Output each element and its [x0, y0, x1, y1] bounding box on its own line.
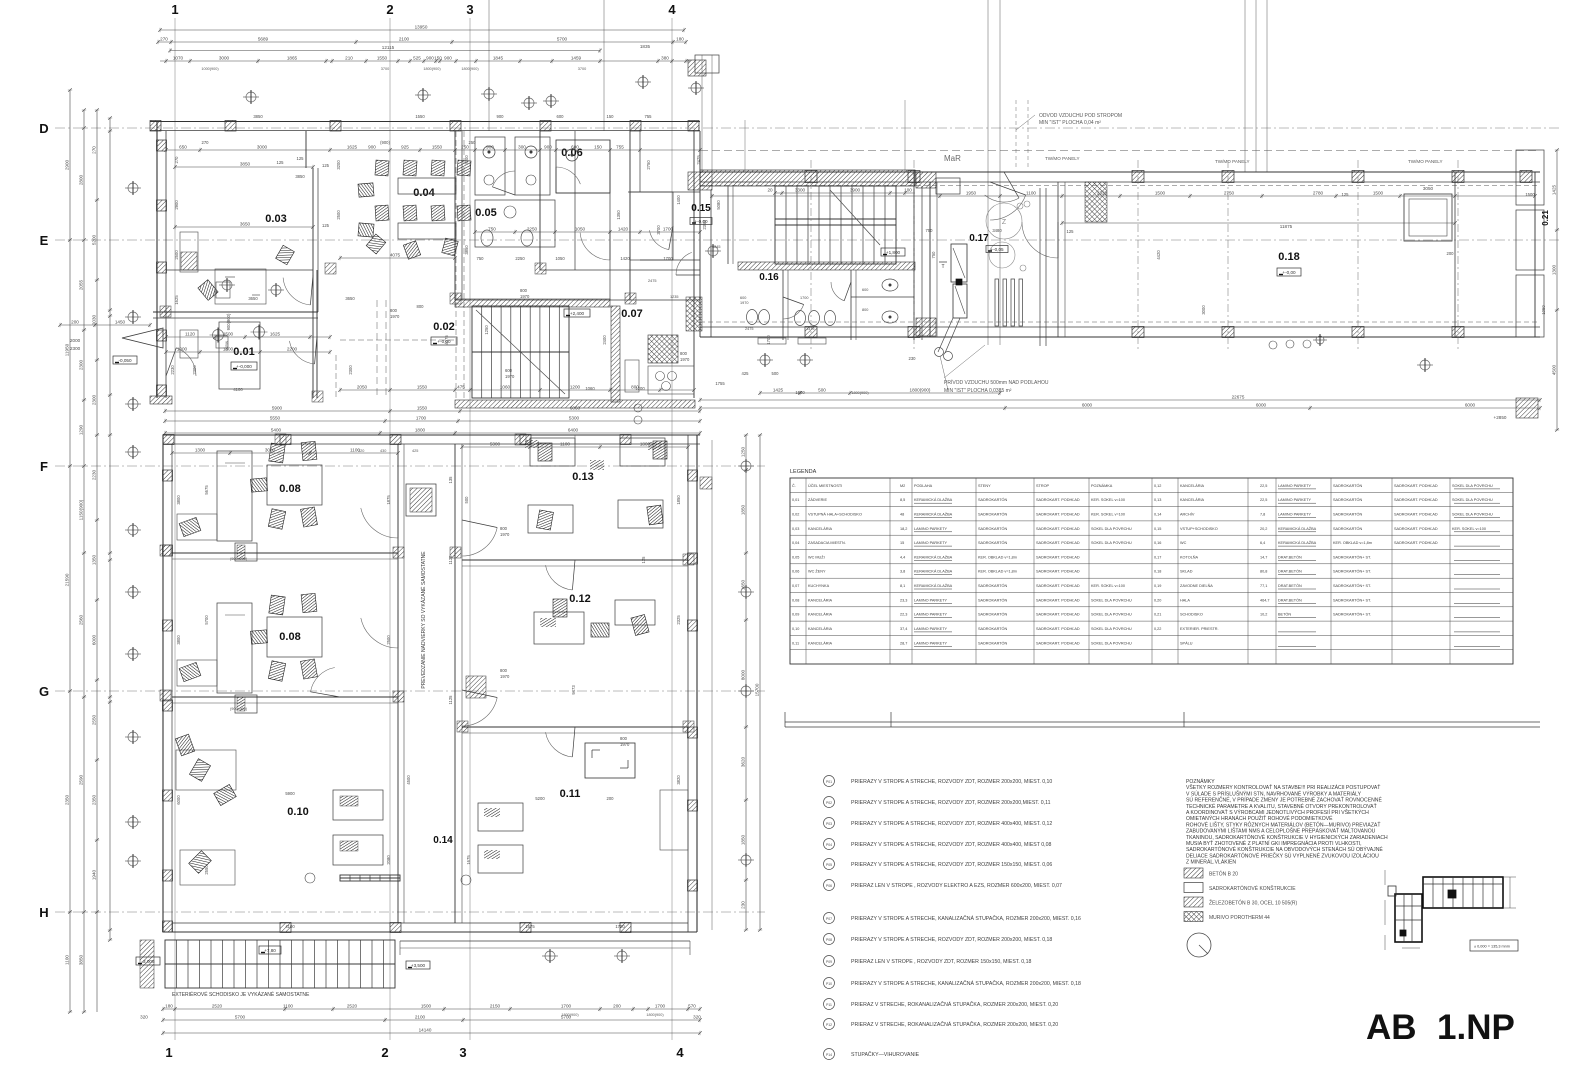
svg-text:1970: 1970 — [680, 357, 690, 362]
svg-text:1000(900): 1000(900) — [201, 67, 219, 71]
svg-text:4100: 4100 — [233, 387, 243, 392]
svg-text:± 0,000 = 135,3 mnm: ± 0,000 = 135,3 mnm — [1474, 945, 1510, 949]
svg-text:2550: 2550 — [92, 714, 97, 725]
svg-text:800: 800 — [680, 351, 688, 356]
svg-text:SADROKART. PODHĽAD: SADROKART. PODHĽAD — [1036, 527, 1080, 531]
svg-text:1650: 1650 — [741, 579, 746, 590]
svg-text:PRIERAZY V STROPE A STRECHE, R: PRIERAZY V STROPE A STRECHE, ROZVODY ZDT… — [851, 862, 1052, 868]
svg-text:15: 15 — [900, 541, 904, 545]
svg-text:DRAT.BETÓN: DRAT.BETÓN — [1278, 583, 1302, 588]
svg-text:ÚČEL MIESTNOSTI: ÚČEL MIESTNOSTI — [808, 483, 842, 488]
svg-text:LAMINO PARKETY: LAMINO PARKETY — [1278, 513, 1312, 517]
lower block inner walls — [172, 435, 688, 733]
svg-text:1.NP: 1.NP — [1437, 1008, 1515, 1047]
svg-text:P11: P11 — [826, 1003, 832, 1007]
room labels lower block — [279, 471, 593, 818]
svg-text:1700: 1700 — [655, 1004, 666, 1009]
svg-text:5550: 5550 — [270, 416, 281, 421]
svg-text:P01: P01 — [826, 780, 832, 784]
svg-text:180: 180 — [676, 37, 684, 42]
svg-text:0.15: 0.15 — [691, 203, 711, 214]
svg-text:22,5: 22,5 — [1260, 484, 1267, 488]
svg-text:12115: 12115 — [382, 45, 395, 50]
svg-text:PRIERAZY V STROPE A STRECHE, R: PRIERAZY V STROPE A STRECHE, ROZVODY ZDT… — [851, 821, 1052, 827]
svg-text:0.16: 0.16 — [759, 272, 779, 283]
svg-text:0,22: 0,22 — [1154, 627, 1161, 631]
svg-text:1500: 1500 — [421, 1004, 432, 1009]
svg-text:800: 800 — [500, 668, 508, 673]
svg-text:6000: 6000 — [176, 795, 181, 805]
svg-text:1970: 1970 — [520, 294, 530, 299]
svg-text:1970: 1970 — [500, 532, 510, 537]
svg-text:0,18: 0,18 — [1154, 570, 1161, 574]
legend table left rows — [792, 483, 1132, 646]
svg-text:2475: 2475 — [648, 279, 656, 283]
svg-text:SADROKART. PODHĽAD: SADROKART. PODHĽAD — [1394, 541, 1438, 545]
room 0.01 furniture — [166, 270, 386, 398]
svg-text:2500: 2500 — [386, 635, 391, 645]
svg-text:230: 230 — [909, 356, 917, 361]
svg-text:1845: 1845 — [493, 56, 504, 61]
svg-text:0.03: 0.03 — [265, 213, 286, 225]
svg-text:SADROKARTÓN: SADROKARTÓN — [978, 626, 1008, 631]
svg-text:1420: 1420 — [618, 227, 629, 232]
svg-text:PRIERAZ LEN V STROPE , ROZVODY: PRIERAZ LEN V STROPE , ROZVODY ELEKTRO A… — [851, 883, 1062, 889]
svg-text:P07: P07 — [826, 917, 832, 921]
svg-text:900: 900 — [486, 145, 494, 150]
svg-text:1150(900): 1150(900) — [79, 499, 84, 520]
corridor opening hatches — [406, 460, 712, 698]
svg-text:(900): (900) — [380, 140, 390, 145]
svg-text:P03: P03 — [826, 822, 832, 826]
svg-text:5700: 5700 — [561, 1015, 572, 1020]
svg-text:2055: 2055 — [79, 279, 84, 290]
room 0.10 furniture — [175, 734, 383, 885]
notes list P01-P14 — [824, 776, 1081, 1060]
svg-text:800: 800 — [390, 308, 398, 313]
rotated wall dims upper block — [170, 155, 701, 375]
wing bottom dims — [698, 388, 1542, 421]
svg-text:1850: 1850 — [676, 495, 681, 505]
svg-text:MURIVO POROTHERM 44: MURIVO POROTHERM 44 — [1209, 915, 1270, 921]
svg-text:2325: 2325 — [676, 615, 681, 625]
svg-text:3800: 3800 — [176, 635, 181, 645]
svg-text:135: 135 — [448, 476, 453, 484]
svg-text:4420: 4420 — [1156, 250, 1161, 260]
svg-text:2400: 2400 — [602, 335, 607, 345]
svg-text:0,20: 0,20 — [1154, 598, 1161, 602]
svg-text:750: 750 — [926, 228, 934, 233]
svg-text:+2,400: +2,400 — [570, 311, 585, 316]
svg-text:1755: 1755 — [715, 381, 725, 386]
svg-text:15700: 15700 — [755, 683, 760, 696]
svg-text:925: 925 — [401, 145, 409, 150]
svg-text:0.21: 0.21 — [1541, 210, 1550, 226]
svg-text:D: D — [39, 121, 48, 136]
svg-text:SADROKARTÓN: SADROKARTÓN — [978, 526, 1008, 531]
svg-text:270: 270 — [92, 146, 97, 154]
svg-text:F: F — [40, 459, 48, 474]
grid column lines 1-4 — [165, 2, 684, 1060]
lower block right dims — [738, 433, 762, 932]
svg-text:SADROKARTÓN: SADROKARTÓN — [1333, 497, 1363, 502]
svg-text:3050: 3050 — [1423, 186, 1434, 191]
svg-text:VSTUPNÁ HALA+SCHODISKO: VSTUPNÁ HALA+SCHODISKO — [808, 513, 862, 517]
svg-text:500: 500 — [464, 496, 469, 504]
right wing inner walls — [930, 172, 1455, 337]
svg-text:0.05: 0.05 — [475, 207, 496, 219]
svg-text:270: 270 — [202, 140, 210, 145]
svg-text:1000: 1000 — [177, 347, 188, 352]
svg-text:1970: 1970 — [390, 314, 400, 319]
section line below legend — [785, 712, 1540, 727]
svg-text:P05: P05 — [826, 863, 832, 867]
svg-text:2250: 2250 — [527, 227, 538, 232]
svg-text:0,16: 0,16 — [1154, 541, 1161, 545]
svg-text:4500: 4500 — [1552, 364, 1557, 375]
svg-text:LAMINO PARKETY: LAMINO PARKETY — [1278, 484, 1312, 488]
svg-text:PRIERAZY V STROPE A STRECHE, K: PRIERAZY V STROPE A STRECHE, KANALIZAČNÁ… — [851, 915, 1081, 922]
svg-text:SKLAD: SKLAD — [1180, 570, 1193, 574]
svg-text:-3,005: -3,005 — [141, 959, 154, 964]
svg-text:SADROKART. PODHĽAD: SADROKART. PODHĽAD — [1036, 570, 1080, 574]
svg-text:2500: 2500 — [174, 250, 179, 260]
svg-text:1350: 1350 — [616, 210, 621, 220]
svg-text:0,04: 0,04 — [792, 541, 799, 545]
svg-text:2100: 2100 — [399, 37, 410, 42]
svg-text:SADROKARTÓN+ ST.: SADROKARTÓN+ ST. — [1333, 554, 1371, 559]
svg-text:SÚ REFERENČNÉ, V PRÍPADE ZMENY: SÚ REFERENČNÉ, V PRÍPADE ZMENY JE POTREB… — [1186, 796, 1382, 804]
svg-text:22675: 22675 — [1232, 395, 1245, 400]
svg-text:SADROKARTÓN: SADROKARTÓN — [978, 583, 1008, 588]
svg-text:(900x900): (900x900) — [230, 557, 248, 561]
svg-text:SADROKART. PODHĽAD: SADROKART. PODHĽAD — [1036, 598, 1080, 602]
svg-text:125: 125 — [297, 156, 305, 161]
svg-text:0.07: 0.07 — [621, 308, 642, 320]
svg-text:2520: 2520 — [347, 1004, 358, 1009]
svg-text:125: 125 — [322, 223, 330, 228]
svg-text:SADROKARTÓN: SADROKARTÓN — [1333, 512, 1363, 517]
svg-text:8000: 8000 — [741, 669, 746, 680]
svg-text:PREVEDZANIE NADVIERKY SO VYKÁZ: PREVEDZANIE NADVIERKY SO VYKÁZANÉ SAMOST… — [420, 551, 427, 689]
svg-text:0,09: 0,09 — [792, 613, 799, 617]
svg-text:Z MINERÁL.VLÁKIEN: Z MINERÁL.VLÁKIEN — [1186, 859, 1236, 866]
svg-text:900: 900 — [544, 145, 552, 150]
svg-text:1060: 1060 — [500, 385, 511, 390]
svg-text:2750: 2750 — [1224, 191, 1235, 196]
key plan miniature — [1385, 870, 1518, 951]
svg-text:475: 475 — [457, 385, 465, 390]
svg-text:TW/MO PANELY: TW/MO PANELY — [1408, 159, 1443, 164]
svg-text:ROHOVÉ LIŠTY, STYKY RÔZNYCH MA: ROHOVÉ LIŠTY, STYKY RÔZNYCH MATERIÁLOV (… — [1186, 820, 1380, 828]
svg-text:210: 210 — [345, 56, 353, 61]
svg-text:KANCELÁRIA: KANCELÁRIA — [808, 527, 833, 531]
svg-text:SADROKART. PODHĽAD: SADROKART. PODHĽAD — [1394, 498, 1438, 502]
svg-text:+2850: +2850 — [1494, 415, 1507, 420]
svg-text:3650: 3650 — [240, 222, 251, 227]
svg-text:4: 4 — [668, 2, 676, 17]
svg-text:0,01: 0,01 — [792, 498, 799, 502]
svg-text:LAMINO PARKETY: LAMINO PARKETY — [914, 641, 948, 645]
svg-text:PRIERAZ V STRECHE, ROKANALIZAČ: PRIERAZ V STRECHE, ROKANALIZAČNÁ STUPAČK… — [851, 1001, 1058, 1008]
svg-text:23,3: 23,3 — [900, 598, 907, 602]
svg-text:900: 900 — [444, 56, 452, 61]
svg-text:1: 1 — [171, 2, 178, 17]
svg-text:SADROKARTÓN: SADROKARTÓN — [1333, 526, 1363, 531]
junction walls 0.15 — [640, 226, 720, 331]
svg-text:750: 750 — [488, 227, 496, 232]
svg-text:1800(900): 1800(900) — [646, 1013, 664, 1017]
svg-text:1235: 1235 — [670, 295, 678, 299]
wing right end — [1516, 148, 1559, 432]
svg-text:900: 900 — [368, 145, 376, 150]
svg-text:1800(900): 1800(900) — [461, 67, 479, 71]
upper block outer walls — [150, 121, 700, 399]
svg-text:1875: 1875 — [386, 495, 391, 505]
svg-text:0,15: 0,15 — [1154, 527, 1161, 531]
svg-text:LAMINO PARKETY: LAMINO PARKETY — [1278, 498, 1312, 502]
wing axis dashes — [700, 100, 1540, 350]
svg-text:4075: 4075 — [390, 253, 401, 258]
svg-text:0,12: 0,12 — [1154, 484, 1161, 488]
svg-text:SOKEL DLA POVRCHU: SOKEL DLA POVRCHU — [1091, 613, 1132, 617]
svg-text:PRIERAZ V STRECHE, ROKANALIZAČ: PRIERAZ V STRECHE, ROKANALIZAČNÁ STUPAČK… — [851, 1021, 1058, 1028]
svg-text:3700: 3700 — [578, 67, 586, 71]
svg-text:SADROKARTÓN+ ST.: SADROKARTÓN+ ST. — [1333, 583, 1371, 588]
svg-text:6,4: 6,4 — [1260, 541, 1265, 545]
svg-text:ZABUDOVANÝMI LIŠTAMI NMS A CEL: ZABUDOVANÝMI LIŠTAMI NMS A CELOPLOŠNE PR… — [1186, 827, 1376, 835]
svg-text:80,8: 80,8 — [1260, 570, 1267, 574]
upper block inner walls — [153, 131, 700, 398]
svg-text:P06: P06 — [826, 884, 832, 888]
svg-text:2300: 2300 — [348, 365, 353, 375]
svg-text:SOKEL DLA POVRCHU: SOKEL DLA POVRCHU — [1091, 527, 1132, 531]
svg-text:3300: 3300 — [795, 188, 806, 193]
svg-text:1625: 1625 — [270, 332, 281, 337]
svg-text:KER. SOKEL v=100: KER. SOKEL v=100 — [1091, 513, 1125, 517]
svg-text:570: 570 — [688, 1004, 696, 1009]
svg-text:1800: 1800 — [223, 347, 234, 352]
svg-text:0.02: 0.02 — [433, 321, 454, 333]
svg-text:5700: 5700 — [557, 37, 568, 42]
svg-text:525: 525 — [413, 56, 421, 61]
svg-text:3850: 3850 — [295, 174, 305, 179]
svg-text:1550: 1550 — [415, 114, 425, 119]
svg-text:TKANINOU, SADROKARTÓNOVÉ KONŠT: TKANINOU, SADROKARTÓNOVÉ KONŠTRUKCIE V H… — [1186, 834, 1388, 841]
svg-text:KERAMICKÁ DLAŽBA: KERAMICKÁ DLAŽBA — [1278, 526, 1317, 531]
hatched strip below upper block — [150, 396, 695, 408]
svg-text:+-0,000: +-0,000 — [236, 364, 252, 369]
svg-text:KOTOLŇA: KOTOLŇA — [1180, 554, 1199, 559]
interior dims lower block — [170, 442, 690, 930]
svg-text:755: 755 — [616, 145, 624, 150]
svg-text:AB: AB — [1366, 1008, 1417, 1047]
svg-text:PRIERAZY V STROPE A STRECHE, R: PRIERAZY V STROPE A STRECHE, ROZVODY ZDT… — [851, 937, 1052, 943]
svg-text:4100: 4100 — [285, 924, 295, 929]
drawing title AB 1.NP — [1366, 1008, 1515, 1047]
svg-text:1300: 1300 — [195, 448, 206, 453]
svg-text:1100: 1100 — [1026, 191, 1036, 196]
wing staircase — [700, 170, 960, 345]
svg-text:0.08: 0.08 — [279, 631, 300, 643]
svg-text:2300: 2300 — [192, 365, 197, 375]
svg-text:SADROKART. PODHĽAD: SADROKART. PODHĽAD — [1036, 613, 1080, 617]
svg-text:KANCELÁRIA: KANCELÁRIA — [808, 613, 833, 617]
svg-text:1800(900): 1800(900) — [910, 388, 931, 393]
svg-text:425: 425 — [412, 449, 418, 453]
svg-text:750: 750 — [477, 256, 485, 261]
room 0.04 tables and chairs — [358, 160, 471, 259]
svg-text:600: 600 — [571, 145, 579, 150]
svg-text:PRIERAZY V STROPE A STRECHE, R: PRIERAZY V STROPE A STRECHE, ROZVODY ZDT… — [851, 842, 1051, 848]
legend table right rows — [1154, 483, 1500, 646]
bottom dimension chains — [140, 1004, 702, 1036]
svg-text:1550: 1550 — [377, 56, 388, 61]
svg-text:STENY: STENY — [978, 484, 991, 488]
svg-text:VŠETKY ROZMERY KONTROLOVAŤ NA: VŠETKY ROZMERY KONTROLOVAŤ NA STAVBE!!! … — [1186, 783, 1380, 791]
lower block outer walls — [163, 435, 701, 933]
svg-text:SADROKART. PODHĽAD: SADROKART. PODHĽAD — [1036, 541, 1080, 545]
svg-text:1865: 1865 — [287, 56, 298, 61]
svg-text:0,10: 0,10 — [792, 627, 799, 631]
svg-text:2100: 2100 — [415, 1015, 426, 1020]
svg-text:1550: 1550 — [417, 385, 428, 390]
svg-text:37,4: 37,4 — [900, 627, 907, 631]
room 0.08 bottom furniture — [177, 593, 322, 713]
svg-text:VSTUP+SCHODISKO: VSTUP+SCHODISKO — [1180, 527, 1218, 531]
svg-text:0.11: 0.11 — [560, 788, 581, 800]
svg-text:5900: 5900 — [285, 791, 295, 796]
svg-text:1050: 1050 — [1541, 305, 1546, 315]
door arcs lower block — [311, 500, 576, 757]
svg-text:ARCHÍV: ARCHÍV — [1180, 513, 1195, 517]
svg-text:1420: 1420 — [620, 256, 630, 261]
svg-text:6000: 6000 — [1082, 403, 1093, 408]
svg-text:600: 600 — [740, 296, 746, 300]
svg-text:6000: 6000 — [1256, 403, 1267, 408]
svg-text:2250: 2250 — [515, 256, 525, 261]
svg-text:Č.: Č. — [792, 483, 796, 488]
svg-text:800: 800 — [520, 288, 528, 293]
svg-text:750: 750 — [931, 251, 936, 259]
svg-text:1700: 1700 — [800, 296, 808, 300]
svg-text:1450: 1450 — [115, 320, 126, 325]
hatch legend — [1184, 868, 1298, 922]
svg-text:5300: 5300 — [569, 416, 580, 421]
central staircase — [455, 299, 610, 398]
svg-text:3820: 3820 — [676, 775, 681, 785]
svg-text:3700: 3700 — [656, 225, 661, 235]
room 0.11 furniture — [585, 743, 688, 850]
exterior staircase — [136, 875, 430, 998]
svg-text:125: 125 — [277, 160, 285, 165]
svg-text:6400: 6400 — [568, 428, 579, 433]
svg-text:0.18: 0.18 — [1278, 251, 1299, 263]
svg-text:0,07: 0,07 — [792, 584, 799, 588]
svg-text:SOKEL DLA POVRCHU: SOKEL DLA POVRCHU — [1452, 484, 1493, 488]
top axis circles — [243, 75, 704, 110]
svg-text:3000: 3000 — [219, 56, 230, 61]
svg-text:P02: P02 — [826, 801, 832, 805]
svg-text:3480: 3480 — [992, 228, 1002, 233]
svg-text:2230: 2230 — [170, 365, 175, 375]
svg-text:SADROKART. PODHĽAD: SADROKART. PODHĽAD — [1036, 513, 1080, 517]
svg-text:125: 125 — [1067, 229, 1075, 234]
svg-text:800: 800 — [620, 736, 628, 741]
svg-text:SADROKART. PODHĽAD: SADROKART. PODHĽAD — [1036, 641, 1080, 645]
svg-text:SADROKARTÓN+ ST.: SADROKARTÓN+ ST. — [1333, 569, 1371, 574]
svg-text:0,08: 0,08 — [792, 598, 799, 602]
svg-text:P10: P10 — [826, 982, 832, 986]
svg-text:Z: Z — [1002, 219, 1007, 226]
svg-text:2350: 2350 — [65, 794, 70, 805]
svg-text:1200: 1200 — [570, 385, 581, 390]
svg-text:1675: 1675 — [466, 855, 471, 865]
svg-text:2200: 2200 — [287, 347, 298, 352]
svg-text:1500: 1500 — [223, 332, 234, 337]
svg-text:KERAMICKÁ DLAŽBA: KERAMICKÁ DLAŽBA — [914, 497, 953, 502]
svg-text:300: 300 — [518, 145, 526, 150]
svg-text:KERAMICKÁ DLAŽBA: KERAMICKÁ DLAŽBA — [1278, 540, 1317, 545]
svg-text:2590: 2590 — [79, 774, 84, 785]
room 0.16 — [740, 270, 914, 344]
remarks paragraph — [1186, 778, 1388, 866]
svg-text:3000: 3000 — [257, 145, 268, 150]
svg-text:1100: 1100 — [560, 442, 570, 447]
svg-text:0,17: 0,17 — [1154, 555, 1161, 559]
svg-text:STROP: STROP — [1036, 484, 1050, 488]
svg-text:SADROKART. PODHĽAD: SADROKART. PODHĽAD — [1036, 555, 1080, 559]
svg-text:BETÓN B 20: BETÓN B 20 — [1209, 871, 1238, 878]
svg-text:1800(900): 1800(900) — [423, 67, 441, 71]
svg-text:0.10: 0.10 — [287, 806, 308, 818]
svg-text:1425: 1425 — [1552, 184, 1557, 195]
svg-text:4075: 4075 — [444, 335, 449, 345]
svg-text:1290: 1290 — [79, 424, 84, 435]
svg-text:2080: 2080 — [386, 855, 391, 865]
svg-text:KANCELÁRIA: KANCELÁRIA — [1180, 484, 1205, 488]
svg-text:3: 3 — [459, 1045, 466, 1060]
svg-text:250: 250 — [469, 140, 477, 145]
svg-text:KUCHYNKA: KUCHYNKA — [808, 584, 830, 588]
room labels upper block — [231, 147, 712, 370]
svg-text:18,2: 18,2 — [900, 527, 907, 531]
svg-text:22,3: 22,3 — [900, 613, 907, 617]
svg-text:14,7: 14,7 — [1260, 555, 1267, 559]
svg-text:3850: 3850 — [253, 114, 263, 119]
svg-text:125: 125 — [641, 556, 646, 564]
svg-text:5689: 5689 — [258, 37, 269, 42]
svg-text:1459: 1459 — [571, 56, 582, 61]
svg-text:LAMINO PARKETY: LAMINO PARKETY — [914, 527, 948, 531]
svg-text:200: 200 — [71, 320, 79, 325]
north symbol — [1187, 933, 1211, 957]
svg-text:1950: 1950 — [966, 191, 977, 196]
svg-text:3620: 3620 — [741, 756, 746, 767]
svg-text:3000: 3000 — [1201, 305, 1206, 315]
svg-text:200: 200 — [607, 796, 615, 801]
svg-text:200: 200 — [1447, 251, 1455, 256]
svg-text:3200: 3200 — [336, 160, 341, 170]
svg-text:3650: 3650 — [345, 296, 355, 301]
svg-text:2560: 2560 — [79, 614, 84, 625]
room 0.17 — [926, 182, 1108, 390]
svg-text:1850: 1850 — [741, 834, 746, 845]
svg-text:P04: P04 — [826, 843, 832, 847]
svg-text:1625: 1625 — [174, 295, 179, 305]
svg-text:ZASADACIA MIESTN.: ZASADACIA MIESTN. — [808, 541, 846, 545]
svg-text:5200: 5200 — [535, 796, 545, 801]
